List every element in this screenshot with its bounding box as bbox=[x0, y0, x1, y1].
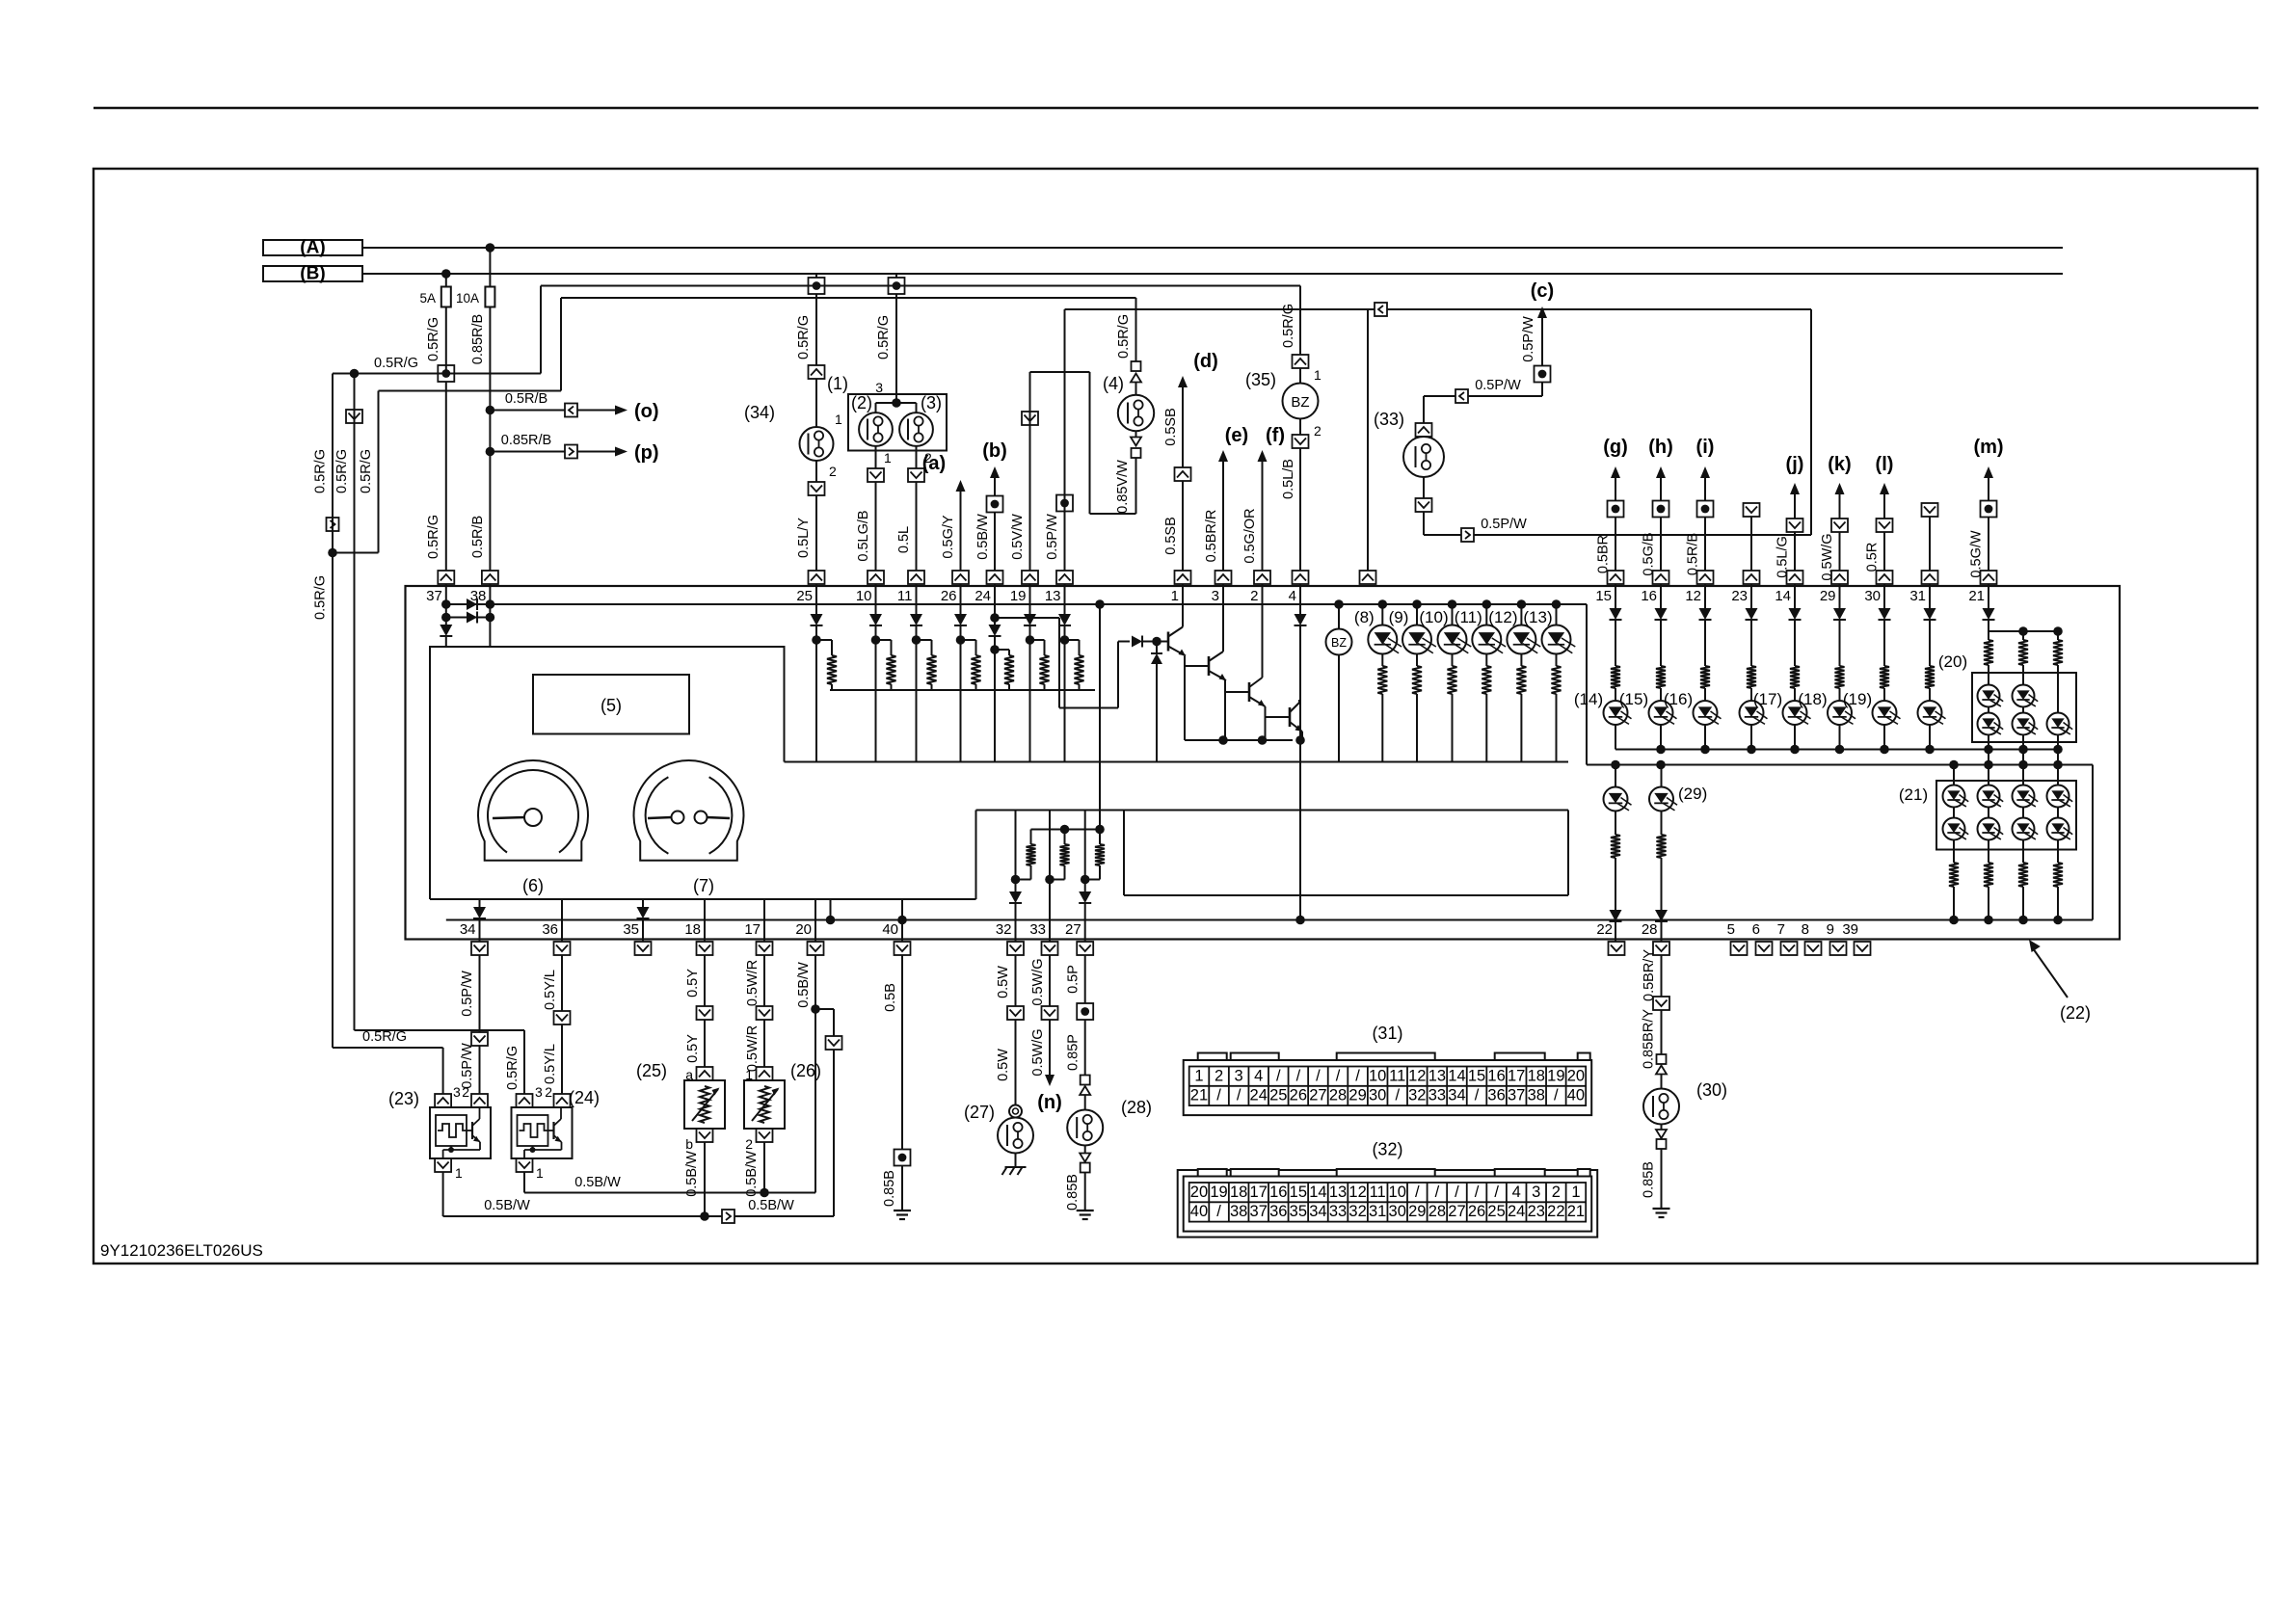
wire pin 16 mid bbox=[1660, 620, 1662, 666]
svg-text:3: 3 bbox=[875, 380, 883, 395]
junction BZ internal bbox=[1334, 599, 1344, 609]
wire pin 19 resistor tail bbox=[1044, 684, 1046, 690]
wire panel out 20 bbox=[814, 899, 816, 942]
resistor pin 26 bbox=[972, 655, 981, 684]
node (c) arrow 0.5P/W bbox=[1521, 280, 1554, 366]
wire 0.5R/G fuse F1 to rail bbox=[426, 307, 446, 374]
wire pin 28 led2 out bbox=[1661, 921, 1663, 942]
resistor LED (8) bbox=[1377, 666, 1387, 694]
terminal lamp30 bottom bbox=[1656, 1130, 1667, 1149]
svg-text:0.5W: 0.5W bbox=[996, 1049, 1011, 1081]
LED 21 top bbox=[1943, 785, 1969, 808]
resistor matrix20 column bbox=[1984, 631, 1993, 673]
fuse F1 5A bbox=[419, 287, 450, 307]
junction led bus bbox=[1984, 745, 1993, 755]
connector o bbox=[565, 404, 577, 417]
wire lamp 34 feed 0.5R/G bbox=[796, 294, 816, 365]
wire pin27 res jog bbox=[1085, 865, 1100, 880]
wire matrix21 feed bbox=[1953, 765, 1955, 785]
svg-text:0.5Y: 0.5Y bbox=[685, 969, 701, 998]
LED 21 bottom bbox=[1978, 808, 2004, 840]
svg-text:28: 28 bbox=[1428, 1203, 1446, 1220]
wire lamp 4 bottom bbox=[1135, 431, 1137, 437]
svg-text:36: 36 bbox=[1487, 1087, 1505, 1104]
resistor matrix21 column bbox=[2053, 863, 2063, 920]
svg-text:25: 25 bbox=[1487, 1203, 1505, 1220]
wire pin32 out bbox=[1015, 903, 1017, 942]
wire led bus2 793 bbox=[1587, 764, 2093, 766]
wire pin 14 led drop bbox=[1794, 584, 1796, 608]
svg-text:(12): (12) bbox=[1488, 608, 1517, 626]
svg-text:0.5W/G: 0.5W/G bbox=[1030, 1028, 1046, 1076]
svg-text:0.5B: 0.5B bbox=[883, 983, 898, 1012]
connector d wire bbox=[1175, 467, 1191, 481]
buzzer (35) bbox=[1245, 370, 1319, 419]
svg-text:(4): (4) bbox=[1103, 374, 1124, 393]
pin 26 top connector bbox=[941, 571, 969, 604]
node (m) arrow bbox=[1973, 437, 2003, 501]
svg-text:1: 1 bbox=[1314, 367, 1322, 383]
wire pin24 base run bbox=[995, 618, 1130, 708]
pin 38 top connector bbox=[470, 571, 498, 604]
wire Q3 base feed bbox=[1225, 691, 1249, 693]
LED 20-1 bbox=[1978, 673, 2004, 707]
diode pin 30 led bbox=[1879, 608, 1891, 620]
node (f) arrow 0.5G/OR bbox=[1242, 425, 1285, 571]
svg-text:0.5W/R: 0.5W/R bbox=[745, 1025, 761, 1072]
wire sensor24 out bbox=[523, 1172, 525, 1193]
connector pin23 stub bbox=[1744, 503, 1760, 517]
resistor LED (11) bbox=[1482, 666, 1491, 694]
wire lamp 33 top run bbox=[1424, 396, 1455, 423]
wire lamp30 out bbox=[1661, 1125, 1663, 1131]
svg-text:15: 15 bbox=[1290, 1184, 1307, 1201]
junction matrix21 bus954 bbox=[2053, 916, 2063, 925]
svg-text:19: 19 bbox=[1210, 1184, 1227, 1201]
display (5) bbox=[533, 675, 689, 734]
buzzer BZ internal bbox=[1326, 629, 1352, 655]
pin 16 top connector bbox=[1641, 571, 1669, 604]
svg-text:0.5G/B: 0.5G/B bbox=[1642, 532, 1657, 575]
wire 0.5L/B to pin 4 bbox=[1281, 448, 1300, 571]
wire left drop 2 0.5R/G bbox=[334, 374, 355, 1031]
wire Q4 emitter drop bbox=[1301, 732, 1303, 740]
svg-text:17: 17 bbox=[1250, 1184, 1268, 1201]
wire pin 19 resistor jog bbox=[1030, 640, 1045, 655]
svg-text:17: 17 bbox=[1508, 1067, 1525, 1084]
svg-text:1: 1 bbox=[536, 1165, 544, 1181]
svg-text:40: 40 bbox=[882, 921, 898, 938]
junction pin 10 bbox=[871, 625, 881, 762]
svg-text:0.85B: 0.85B bbox=[1065, 1174, 1081, 1211]
svg-text:9Y1210236ELT026US: 9Y1210236ELT026US bbox=[100, 1241, 263, 1260]
wire sensor23 out bbox=[442, 1172, 444, 1216]
wire pin13 drop to cluster bbox=[1367, 309, 1369, 571]
svg-text:21: 21 bbox=[1190, 1087, 1208, 1104]
transistor Q2 bbox=[1209, 649, 1226, 680]
svg-text:(29): (29) bbox=[1678, 785, 1707, 803]
junction led bus2 bbox=[1984, 760, 1993, 770]
LED (17) bbox=[1753, 690, 1811, 725]
wire pin37 drop bbox=[445, 584, 447, 625]
wire pin 29 to led bbox=[1839, 688, 1841, 701]
svg-text:/: / bbox=[1316, 1067, 1321, 1084]
terminal lamp 4 bottom bbox=[1131, 438, 1141, 459]
node (i) arrow bbox=[1696, 437, 1715, 501]
svg-text:12: 12 bbox=[1685, 588, 1701, 604]
svg-text:(14): (14) bbox=[1574, 690, 1603, 708]
svg-text:0.5B/W: 0.5B/W bbox=[484, 1198, 530, 1213]
wire pin 15 mid bbox=[1615, 620, 1616, 666]
wire LED (13) tail bbox=[1556, 654, 1558, 667]
wire 0.85B lamp28 bbox=[1065, 1173, 1085, 1211]
wire LED (12) drop bbox=[1520, 694, 1522, 762]
wire bus B bbox=[362, 273, 2063, 275]
svg-text:(c): (c) bbox=[1531, 280, 1554, 302]
wire LED 16 tail bbox=[1660, 725, 1662, 750]
svg-text:9: 9 bbox=[1827, 921, 1834, 938]
resistor pin 30 led bbox=[1880, 666, 1889, 688]
junction led bus bbox=[2053, 745, 2063, 755]
connector sender top bbox=[685, 1067, 712, 1082]
svg-text:23: 23 bbox=[1528, 1203, 1545, 1220]
diode pin 15 led bbox=[1610, 608, 1622, 620]
wire pin33 drop 0.5W/G bbox=[1030, 955, 1050, 1006]
resistor LED (9) bbox=[1412, 666, 1422, 694]
svg-text:2: 2 bbox=[1215, 1067, 1223, 1084]
wire pin28 to lamp bbox=[1642, 1009, 1662, 1069]
svg-text:/: / bbox=[1435, 1184, 1440, 1201]
connector j wire bbox=[1787, 519, 1803, 532]
border frame top rule bbox=[93, 107, 2258, 110]
wire sender26 out 0.5B/W bbox=[744, 1142, 764, 1197]
LED 20-2 bbox=[2013, 673, 2039, 707]
svg-text:40: 40 bbox=[1190, 1203, 1208, 1220]
junction LED (10) feed bbox=[1448, 599, 1457, 609]
LED 21 top bbox=[2047, 785, 2073, 808]
junction left drop 1 branch bbox=[328, 548, 337, 558]
connector BZ35 top bbox=[1293, 355, 1322, 383]
svg-text:37: 37 bbox=[1250, 1203, 1268, 1220]
LED (19) bbox=[1843, 690, 1901, 725]
resistor pin 28 led2 bbox=[1657, 835, 1667, 858]
resistor pin 25 bbox=[827, 655, 837, 684]
svg-text:18: 18 bbox=[1528, 1067, 1545, 1084]
wire 0.85R/B below fuse F2 bbox=[470, 307, 490, 572]
wire 0.5L to pin 11 bbox=[896, 482, 917, 571]
LED (12) bbox=[1488, 604, 1540, 654]
lamp (28) bbox=[1067, 1098, 1152, 1146]
LED (15) bbox=[1619, 690, 1677, 725]
diode pin 10 bbox=[869, 614, 882, 625]
LED (18) bbox=[1798, 690, 1855, 725]
wire pin27 internal bbox=[1084, 811, 1086, 892]
svg-text:(34): (34) bbox=[744, 403, 775, 422]
junction pin 25 bbox=[812, 625, 821, 762]
wire internal bus 954 bbox=[446, 919, 2093, 921]
resistor pin 23 led bbox=[1747, 666, 1756, 688]
LED 21 top bbox=[1978, 785, 2004, 808]
wire pin40 drop 0.5B bbox=[883, 955, 902, 1150]
wire d upper bbox=[1163, 351, 1218, 467]
svg-text:11: 11 bbox=[1389, 1067, 1405, 1084]
svg-text:0.5L/Y: 0.5L/Y bbox=[796, 518, 812, 558]
svg-text:32: 32 bbox=[996, 921, 1012, 938]
connector BZ35 bottom bbox=[1293, 435, 1309, 448]
svg-text:(23): (23) bbox=[388, 1089, 419, 1108]
svg-text:(28): (28) bbox=[1121, 1098, 1152, 1117]
svg-text:0.5B/W: 0.5B/W bbox=[796, 962, 812, 1008]
svg-text:0.5P/W: 0.5P/W bbox=[460, 971, 475, 1017]
wire Q4 base feed bbox=[1266, 716, 1291, 718]
wire 0.85B ground bbox=[882, 1166, 902, 1211]
svg-text:11: 11 bbox=[1370, 1184, 1386, 1201]
diode pin 11 bbox=[910, 614, 922, 625]
connector pin13 drop bbox=[1360, 571, 1376, 584]
diode pin 12 led bbox=[1699, 608, 1712, 620]
wire pin32 drop 0.5W bbox=[996, 955, 1016, 1006]
svg-text:30: 30 bbox=[1369, 1087, 1386, 1104]
svg-text:28: 28 bbox=[1329, 1087, 1347, 1104]
svg-text:(i): (i) bbox=[1696, 437, 1715, 458]
wire pin 19 internal drop bbox=[1029, 584, 1031, 614]
svg-text:0.5P/W: 0.5P/W bbox=[1521, 316, 1536, 362]
LED (10) bbox=[1419, 604, 1471, 654]
wire pin 12 to led bbox=[1704, 688, 1706, 701]
junction bus A to fuse F2 bbox=[486, 243, 495, 253]
svg-text:3: 3 bbox=[1212, 588, 1219, 604]
connector sensor24 pin2 bbox=[545, 1084, 570, 1107]
compartment box bbox=[1124, 811, 1568, 896]
svg-text:0.5P: 0.5P bbox=[1066, 965, 1081, 994]
wire pin32 res jog bbox=[1016, 865, 1031, 880]
terminal b bbox=[987, 496, 1003, 513]
lamp (33) bbox=[1374, 410, 1444, 477]
pin 3 top connector bbox=[1212, 571, 1232, 604]
wire pin20 straight bbox=[814, 1009, 816, 1193]
wire pin34 to 23 bbox=[460, 1043, 480, 1094]
wire lamp27 ground bbox=[1015, 1154, 1017, 1168]
wire pin 29 mid bbox=[1839, 620, 1841, 666]
svg-text:/: / bbox=[1216, 1087, 1221, 1104]
diode pin 14 led bbox=[1789, 608, 1802, 620]
wire rail1 top 0.5R/G feed bbox=[541, 285, 1300, 287]
wire BZ35 out bbox=[1300, 419, 1322, 439]
wire 0.5B/W lower link bbox=[443, 1198, 794, 1216]
lamp (34) bbox=[744, 403, 834, 461]
svg-text:28: 28 bbox=[1642, 921, 1658, 938]
junction matrix21 bus954 bbox=[1949, 916, 1959, 925]
svg-text:(8): (8) bbox=[1354, 608, 1375, 626]
svg-text:4: 4 bbox=[1289, 588, 1296, 604]
svg-text:2: 2 bbox=[462, 1084, 469, 1100]
wire panel out 36 bbox=[561, 899, 563, 942]
svg-text:0.5B/W: 0.5B/W bbox=[744, 1151, 760, 1197]
wire LED 29 tail bbox=[1839, 725, 1841, 750]
wire 0.85R/B to connector p bbox=[490, 433, 565, 452]
terminal i bbox=[1697, 501, 1714, 518]
resistor pin27 internal bbox=[1095, 830, 1105, 866]
junction matrix20 a bbox=[2018, 626, 2028, 636]
wire pin20 drop 0.5B/W bbox=[796, 955, 815, 1009]
svg-text:(e): (e) bbox=[1225, 425, 1248, 446]
diode pin 16 led bbox=[1655, 608, 1668, 620]
wire BZ35 feed 0.5R/G bbox=[1281, 286, 1300, 356]
resistor matrix21 column bbox=[1949, 863, 1959, 920]
wire lamp 3 out bbox=[917, 446, 933, 468]
connector lower link bbox=[722, 1210, 734, 1223]
terminal bus B drop 1 bbox=[809, 274, 825, 294]
svg-text:16: 16 bbox=[1269, 1184, 1287, 1201]
node (g) arrow bbox=[1603, 437, 1628, 501]
wire pin 4 internal drop bbox=[1299, 584, 1301, 614]
svg-text:(32): (32) bbox=[1372, 1140, 1402, 1159]
wire pin27 to lamp bbox=[1066, 1020, 1085, 1076]
wire lamp28 in bbox=[1084, 1095, 1086, 1110]
transistor Q4 bbox=[1290, 700, 1302, 732]
transistor sensor24 bbox=[524, 1107, 562, 1157]
wire Q2 base feed bbox=[1185, 665, 1209, 667]
wire pin 22 led2 drop bbox=[1615, 858, 1616, 910]
junction LED (11) feed bbox=[1482, 599, 1492, 609]
node (d) arrow 0.5SB bbox=[1163, 481, 1183, 571]
svg-text:(16): (16) bbox=[1664, 690, 1693, 708]
wire pin 28 led2 drop bbox=[1661, 858, 1663, 910]
svg-text:0.5R/G: 0.5R/G bbox=[876, 315, 892, 359]
wire pin32 internal bbox=[1015, 811, 1017, 892]
svg-text:0.5Y: 0.5Y bbox=[685, 1034, 701, 1063]
wire pin27 out bbox=[1084, 903, 1086, 942]
svg-text:2: 2 bbox=[1314, 423, 1322, 439]
LED 20-5 bbox=[2047, 673, 2073, 735]
svg-text:(p): (p) bbox=[634, 442, 659, 464]
junction pin4 emitter bus bbox=[1295, 735, 1305, 745]
wire 0.5R/G to sensor 24 pin3 bbox=[355, 1030, 525, 1094]
diode pin32 internal bbox=[1009, 891, 1022, 903]
svg-text:(25): (25) bbox=[636, 1061, 667, 1080]
LED 20-4 bbox=[2013, 707, 2039, 735]
svg-text:34: 34 bbox=[1309, 1203, 1326, 1220]
pin 6 bottom connector bbox=[1752, 921, 1773, 955]
wire LED (9) drop bbox=[1416, 694, 1418, 762]
connector (32) pinout table bbox=[1178, 1140, 1598, 1237]
diode panel 35 bbox=[637, 907, 650, 918]
svg-text:0.5R/G: 0.5R/G bbox=[313, 575, 329, 620]
resistor pin 22 led2 bbox=[1611, 835, 1620, 858]
wire LED 30 tail bbox=[1883, 725, 1885, 750]
pin 32 bottom connector bbox=[996, 921, 1024, 955]
svg-text:24: 24 bbox=[1250, 1087, 1268, 1104]
junction pin 26 bbox=[956, 625, 966, 762]
svg-text:15: 15 bbox=[1595, 588, 1612, 604]
svg-text:0.5B/W: 0.5B/W bbox=[684, 1151, 700, 1197]
pin 39 bottom connector bbox=[1842, 921, 1870, 955]
terminal c bbox=[1535, 366, 1551, 383]
wire 0.5LG/B to pin 10 bbox=[856, 482, 876, 571]
wire pin 23 mid bbox=[1750, 620, 1752, 666]
connector lamp 34 bottom bbox=[809, 482, 825, 495]
speed sensor (23) bbox=[388, 1089, 491, 1158]
wire pin 28 led2 feed bbox=[1661, 765, 1663, 788]
resistor pin 10 bbox=[887, 655, 896, 684]
wire pin 22 led2 feed bbox=[1615, 765, 1616, 788]
connector 33 return b bbox=[1461, 517, 1527, 542]
pin 37 top connector bbox=[426, 571, 454, 604]
wire 0.5B/W upper link bbox=[524, 1175, 815, 1193]
wire long drop 1141 bbox=[1099, 604, 1101, 830]
wire bus A bbox=[362, 247, 2063, 249]
wire lamp unit tee bbox=[876, 403, 917, 412]
svg-text:(3): (3) bbox=[921, 393, 942, 412]
wire matrix21 feed bbox=[2022, 765, 2024, 785]
wire to lamp 34 bbox=[816, 379, 842, 427]
svg-text:0.5R/G: 0.5R/G bbox=[313, 449, 329, 493]
svg-text:0.85V/W: 0.85V/W bbox=[1115, 460, 1131, 514]
svg-text:35: 35 bbox=[1290, 1203, 1307, 1220]
svg-text:16: 16 bbox=[1487, 1067, 1505, 1084]
wire lamp 33 bottom stub bbox=[1423, 477, 1425, 498]
wire BZ35 in bbox=[1299, 368, 1301, 384]
wire lamp30 in bbox=[1661, 1075, 1663, 1089]
connector sender bottom bbox=[745, 1129, 772, 1152]
wire rail627 corner drop bbox=[1586, 604, 1588, 765]
LED (13) bbox=[1523, 604, 1575, 654]
junction led bus bbox=[1835, 745, 1845, 755]
wire 0.5 0.5G/B to cluster bbox=[1642, 518, 1662, 576]
svg-text:22: 22 bbox=[1547, 1203, 1564, 1220]
wire 0.5L/Y to pin 25 bbox=[796, 495, 816, 571]
terminal bus B drop 2 bbox=[889, 274, 905, 294]
svg-text:1: 1 bbox=[1571, 1184, 1580, 1201]
pin 31 top connector bbox=[1909, 571, 1937, 604]
resistor pin 19 internal bbox=[1040, 655, 1050, 684]
junction pin20 split bbox=[811, 1004, 820, 1014]
node (o) arrow bbox=[577, 401, 659, 422]
fuel sender (25) bbox=[636, 1061, 725, 1129]
wire LED 14 tail bbox=[1794, 725, 1796, 750]
svg-text:(13): (13) bbox=[1523, 608, 1552, 626]
LED matrix (20) box bbox=[1938, 652, 2076, 742]
resistor pin 13 internal bbox=[1075, 655, 1084, 684]
wire fuse F1 feed bbox=[445, 274, 447, 287]
resistor pin 12 led bbox=[1700, 666, 1710, 688]
svg-text:14: 14 bbox=[1775, 588, 1791, 604]
LED (14) bbox=[1574, 690, 1632, 725]
connector lamp 2 out bbox=[868, 468, 884, 482]
svg-text:/: / bbox=[1355, 1067, 1360, 1084]
terminal lamp27 ring bbox=[1009, 1105, 1022, 1118]
gauge (6) tachometer bbox=[478, 760, 588, 895]
LED 21 bottom bbox=[1943, 808, 1969, 840]
transistor Q1 bbox=[1168, 625, 1186, 656]
wire pin2 collector bbox=[1262, 584, 1264, 678]
wire emitter bus bbox=[1185, 739, 1293, 741]
svg-text:0.85B: 0.85B bbox=[1642, 1161, 1657, 1198]
junction 640 pin37 bbox=[441, 613, 451, 623]
resistor pin 11 bbox=[927, 655, 937, 684]
svg-text:2: 2 bbox=[545, 1084, 552, 1100]
wire pin 14 to led bbox=[1794, 688, 1796, 701]
wire LED (10) drop bbox=[1452, 694, 1454, 762]
wire pin13 top run bbox=[1065, 308, 1375, 310]
svg-text:34: 34 bbox=[1448, 1087, 1465, 1104]
svg-text:0.5SB: 0.5SB bbox=[1163, 517, 1179, 555]
pin 33 bottom connector bbox=[1029, 921, 1057, 955]
junction emitter bus q2 bbox=[1218, 735, 1228, 745]
wire pin3 collector bbox=[1222, 584, 1224, 652]
wire pin33 internal bbox=[1049, 811, 1051, 943]
svg-text:29: 29 bbox=[1820, 588, 1836, 604]
